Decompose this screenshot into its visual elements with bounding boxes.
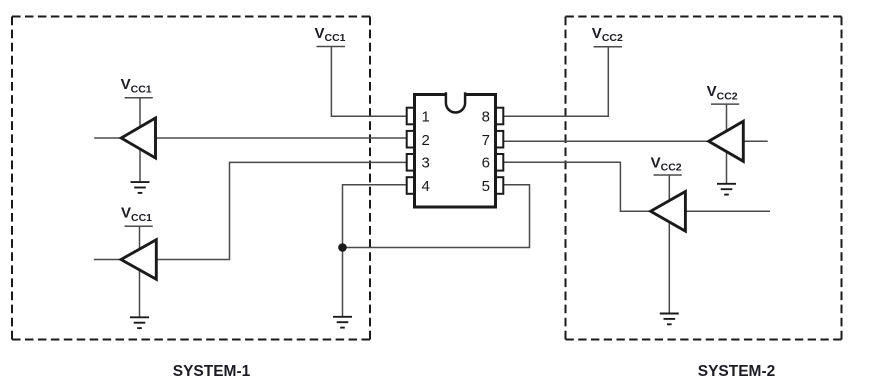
svg-text:6: 6 bbox=[482, 155, 490, 172]
svg-text:8: 8 bbox=[482, 108, 490, 125]
svg-text:5: 5 bbox=[482, 178, 490, 195]
svg-text:1: 1 bbox=[422, 108, 430, 125]
svg-text:3: 3 bbox=[422, 155, 430, 172]
svg-text:SYSTEM-1: SYSTEM-1 bbox=[173, 363, 251, 380]
svg-text:2: 2 bbox=[422, 132, 430, 149]
svg-text:7: 7 bbox=[482, 132, 490, 149]
svg-text:4: 4 bbox=[422, 178, 430, 195]
svg-text:SYSTEM-2: SYSTEM-2 bbox=[698, 363, 776, 380]
